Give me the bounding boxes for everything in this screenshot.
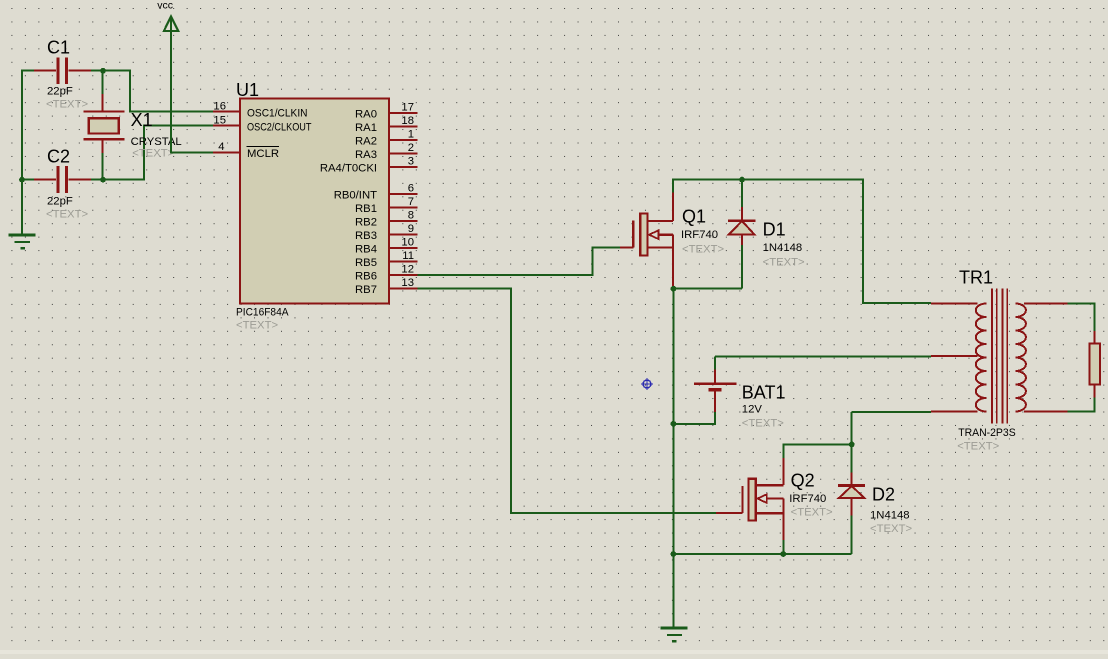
svg-text:BAT1: BAT1 (742, 382, 786, 402)
svg-text:<TEXT>: <TEXT> (682, 243, 724, 255)
svg-text:7: 7 (408, 196, 414, 208)
svg-text:PIC16F84A: PIC16F84A (236, 307, 289, 319)
crystal X1 (83, 71, 181, 180)
svg-text:22pF: 22pF (47, 196, 73, 208)
svg-text:IRF740: IRF740 (789, 493, 826, 505)
svg-text:U1: U1 (236, 80, 259, 100)
svg-text:RB4: RB4 (355, 243, 377, 255)
svg-text:Q1: Q1 (682, 207, 706, 227)
svg-text:<TEXT>: <TEXT> (957, 440, 999, 452)
pin 3 (RA4/T0CKI) (320, 155, 418, 174)
svg-text:1: 1 (408, 128, 414, 140)
transformer TR1 TRAN-2P3S (931, 267, 1067, 452)
wire secondary top to resistor (1067, 304, 1094, 332)
node junction C1/X1 (100, 68, 106, 74)
node junction D1 top rail (739, 177, 745, 183)
svg-text:16: 16 (213, 100, 226, 112)
svg-text:6: 6 (408, 182, 414, 194)
node junction Q2 drain / D2 (849, 442, 855, 448)
svg-text:RA1: RA1 (355, 122, 377, 134)
svg-text:C1: C1 (47, 38, 70, 58)
svg-text:17: 17 (401, 101, 414, 113)
pin 6 (RB0/INT) (334, 182, 418, 201)
svg-text:TR1: TR1 (959, 267, 993, 287)
svg-text:<TEXT>: <TEXT> (132, 148, 174, 160)
pin 11 (RB5) (355, 250, 417, 269)
svg-text:RA0: RA0 (355, 108, 377, 120)
wire vcc to MCLR pin4 (171, 17, 213, 152)
wire D1 bottom to Q1 source (673, 288, 742, 290)
svg-text:<TEXT>: <TEXT> (742, 417, 784, 429)
transistor Q2 IRF740 (716, 458, 833, 540)
svg-text:RA4/T0CKI: RA4/T0CKI (320, 162, 377, 174)
wire RB6 to Q1 gate (418, 248, 621, 275)
svg-text:<TEXT>: <TEXT> (46, 99, 88, 111)
wire main vertical Q1 source to ground (672, 287, 674, 628)
svg-text:13: 13 (401, 277, 414, 289)
pin 18 (RA1) (355, 115, 417, 134)
svg-text:12V: 12V (742, 404, 763, 416)
pin 13 (RB7) (355, 277, 417, 296)
power vcc (157, 0, 178, 31)
svg-text:OSC1/CLKIN: OSC1/CLKIN (247, 107, 308, 119)
pin 1 (RA2) (355, 128, 417, 147)
pin 8 (RB2) (355, 209, 417, 228)
diode D2 1N4148 (838, 412, 912, 554)
wire C1 left to C2 left vertical (22, 71, 34, 180)
ground left (9, 180, 36, 249)
svg-text:D2: D2 (872, 485, 895, 505)
ground center (661, 628, 688, 641)
svg-text:RB1: RB1 (355, 203, 377, 215)
wire battery top to transformer (715, 355, 931, 357)
svg-text:4: 4 (218, 141, 224, 153)
diode D1 1N4148 (728, 180, 805, 289)
transistor Q1 IRF740 (620, 193, 724, 288)
svg-text:RA3: RA3 (355, 149, 377, 161)
svg-text:vcc: vcc (157, 0, 173, 12)
svg-text:9: 9 (408, 223, 414, 235)
pin 2 (RA3) (355, 142, 417, 161)
svg-text:<TEXT>: <TEXT> (791, 507, 833, 519)
node junction bottom rail left (671, 551, 677, 557)
svg-text:3: 3 (408, 155, 414, 167)
pin 15 OSC2/CLKOUT (213, 114, 312, 133)
node junction C2/X1 (100, 177, 106, 183)
wire C1 to junction (91, 70, 103, 72)
svg-text:1N4148: 1N4148 (870, 509, 910, 521)
svg-text:RB2: RB2 (355, 216, 377, 228)
node junction C2 left (19, 177, 25, 183)
wire junction to pin15 OSC2 (103, 126, 213, 180)
wire RB7 to Q2 gate (418, 289, 717, 514)
svg-text:<TEXT>: <TEXT> (870, 523, 912, 535)
svg-text:RA2: RA2 (355, 135, 377, 147)
wire Q1 drain to top rail (673, 180, 931, 303)
wire Q2 source down (782, 540, 784, 554)
svg-text:MCLR: MCLR (247, 148, 279, 160)
op-amp U1 PIC16F84A body (236, 80, 389, 332)
svg-text:2: 2 (408, 142, 414, 154)
resistor load (1090, 331, 1101, 397)
svg-text:TRAN-2P3S: TRAN-2P3S (958, 427, 1016, 439)
svg-text:12: 12 (401, 263, 414, 275)
pin 17 (RA0) (355, 101, 417, 120)
node junction Q2 source bottom (780, 551, 786, 557)
capacitor C1 (34, 38, 91, 111)
node junction battery bottom (671, 421, 677, 427)
wire C2 to junction (91, 179, 103, 181)
svg-text:8: 8 (408, 209, 414, 221)
pin 4 MCLR (213, 141, 279, 160)
svg-text:D1: D1 (763, 220, 786, 240)
wire resistor bottom to secondary bottom (1067, 397, 1094, 411)
wire bottom rail (673, 553, 851, 555)
svg-text:RB3: RB3 (355, 230, 377, 242)
svg-text:OSC2/CLKOUT: OSC2/CLKOUT (247, 121, 312, 133)
svg-text:RB6: RB6 (355, 270, 377, 282)
svg-text:<TEXT>: <TEXT> (763, 256, 805, 268)
svg-text:10: 10 (401, 236, 414, 248)
svg-text:<TEXT>: <TEXT> (46, 209, 88, 221)
svg-text:RB5: RB5 (355, 257, 377, 269)
svg-text:RB7: RB7 (355, 284, 377, 296)
svg-text:18: 18 (401, 115, 414, 127)
svg-text:<TEXT>: <TEXT> (236, 320, 278, 332)
wire D2 top rail to transformer bottom-left (852, 411, 931, 413)
svg-text:CRYSTAL: CRYSTAL (131, 136, 182, 148)
svg-text:RB0/INT: RB0/INT (334, 189, 377, 201)
svg-text:C2: C2 (47, 147, 70, 167)
wire Q2 drain up (783, 444, 851, 458)
pin 7 (RB1) (355, 196, 417, 215)
svg-text:1N4148: 1N4148 (763, 242, 803, 254)
pin 10 (RB4) (355, 236, 417, 255)
origin marker blue (641, 378, 653, 390)
wire junction to pin16 OSC1 (103, 71, 213, 112)
capacitor C2 (34, 147, 91, 221)
svg-text:11: 11 (402, 250, 414, 262)
pin 12 (RB6) (355, 263, 417, 282)
svg-text:15: 15 (213, 114, 226, 126)
svg-text:Q2: Q2 (791, 470, 815, 490)
node junction Q1 source (671, 286, 677, 292)
svg-text:IRF740: IRF740 (681, 229, 718, 241)
pin 16 OSC1/CLKIN (213, 100, 308, 119)
svg-text:X1: X1 (131, 110, 153, 130)
pin 9 (RB3) (355, 223, 417, 242)
battery BAT1 12V (674, 356, 785, 429)
svg-text:22pF: 22pF (47, 86, 73, 98)
